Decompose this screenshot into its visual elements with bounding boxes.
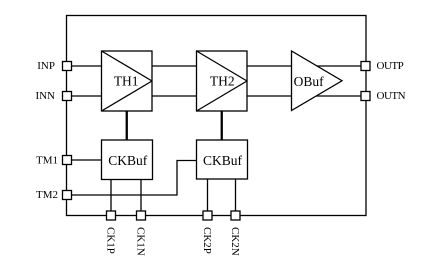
wire clock CKBuf2 to TH2 (thick) <box>221 111 223 140</box>
svg-text:CKBuf: CKBuf <box>108 153 148 168</box>
port TM1 <box>63 156 72 165</box>
svg-text:CK1P: CK1P <box>105 227 117 254</box>
port CK1P <box>107 211 116 220</box>
wire CKBuf1 to CK1P <box>110 180 112 212</box>
wire TM2 to CKBuf2 <box>72 161 197 196</box>
port INP <box>63 62 72 71</box>
port CK1N <box>137 211 146 220</box>
port TM2 <box>63 191 72 200</box>
svg-text:TM2: TM2 <box>36 189 58 201</box>
svg-text:TH1: TH1 <box>114 74 139 89</box>
wire signal path P (INP to OUTP) <box>72 65 361 67</box>
clock buffer CKBuf1 <box>102 140 153 180</box>
svg-text:INP: INP <box>37 60 55 72</box>
svg-text:INN: INN <box>35 90 55 102</box>
wire CKBuf1 to CK1N <box>140 180 142 212</box>
wire TM1 to CKBuf1 <box>72 159 102 161</box>
wire clock CKBuf1 to TH1 (thick) <box>126 111 128 140</box>
port OUTP <box>361 62 370 71</box>
svg-text:OUTP: OUTP <box>377 60 404 72</box>
port OUTN <box>361 92 370 101</box>
wire CKBuf2 to CK2P <box>207 179 209 211</box>
clock buffer CKBuf2 <box>197 140 248 179</box>
outer chip boundary <box>67 16 367 216</box>
wire signal path N (INN to OUTN) <box>72 95 361 97</box>
svg-text:OUTN: OUTN <box>377 90 406 102</box>
port CK2P <box>203 211 212 220</box>
svg-text:CK2P: CK2P <box>201 227 213 254</box>
svg-text:OBuf: OBuf <box>294 74 325 89</box>
svg-text:CKBuf: CKBuf <box>203 153 243 168</box>
svg-text:CK1N: CK1N <box>135 227 147 256</box>
svg-text:CK2N: CK2N <box>229 227 241 256</box>
svg-text:TH2: TH2 <box>210 74 235 89</box>
output buffer OBuf <box>292 51 343 111</box>
track-and-hold TH2 <box>197 51 248 111</box>
svg-text:TM1: TM1 <box>36 155 58 167</box>
wire CKBuf2 to CK2N <box>235 179 237 211</box>
port INN <box>63 92 72 101</box>
track-and-hold TH1 <box>102 51 153 111</box>
port CK2N <box>231 211 240 220</box>
